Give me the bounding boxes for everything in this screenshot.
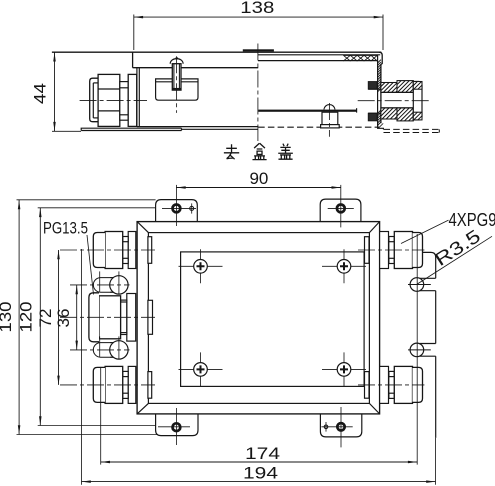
svg-text:138: 138 (240, 0, 274, 17)
cable gland PG9 right: centerline (358, 384, 424, 386)
plan view: lug hole top-left (173, 205, 181, 213)
dimension 72 (58, 250, 60, 385)
side view: right gland bore lines (368, 88, 381, 90)
side view: right wall inner edge (377, 55, 379, 127)
side view: right wall outer edge with rounded corner (379, 52, 382, 123)
side view: left gland centerline (80, 99, 147, 101)
svg-text:194: 194 (243, 464, 278, 483)
cable gland PG9 right: cap (413, 367, 423, 402)
side view: left gland internal edges (PG9 glands behind) (98, 88, 137, 90)
side view: left gland wall flange (128, 74, 137, 126)
dimension 138 (134, 16, 383, 18)
side view: lid left lip (132, 52, 134, 67)
plan view: lug top-right vertical centerline (340, 185, 342, 228)
plan view: lug bottom-left vertical centerline (175, 408, 177, 445)
side view: right gland nut (hatched) (397, 81, 413, 93)
mounting bracket outline right side (423, 252, 436, 278)
cable gland PG9 left: neck ring (123, 237, 129, 242)
cable gland PG9 left: centerline (60, 249, 155, 251)
bracket edge lower part (435, 356, 437, 438)
svg-text:PG13.5: PG13.5 (43, 220, 88, 238)
cable gland PG9 right: locknut inside box (365, 237, 370, 264)
cable gland PG9 right: body (394, 366, 412, 403)
svg-text:174: 174 (245, 444, 280, 463)
plan view: lug hole bottom-left (173, 423, 181, 431)
svg-text:120: 120 (17, 302, 36, 333)
bracket keyhole slot upper (R3.5) (420, 277, 436, 279)
side view: right gland cap (413, 82, 422, 120)
cable gland PG9 left: wall flange (128, 232, 136, 269)
plan view: box inner wall edge (148, 233, 369, 404)
side view: left gland cap (90, 78, 98, 122)
cable gland PG9 left: wall flange (128, 366, 136, 403)
side view: centerline of box (section boundary) (257, 44, 259, 142)
cable gland PG13.5: centerline (60, 316, 155, 318)
side view: right cable gland section - seal rings (dark) (368, 82, 377, 90)
side view: right screw base flange (321, 125, 340, 128)
cable gland PG9 right: centerline (358, 249, 424, 251)
plan view: lug slot top-left (190, 206, 194, 210)
svg-text:90: 90 (249, 169, 268, 188)
side view: box bottom edge left half (137, 126, 258, 128)
cable gland PG9 right: neck ring (389, 371, 394, 376)
cable gland PG9 right: neck ring (389, 237, 394, 242)
bracket keyhole slot lower (420, 343, 436, 345)
extension line for 174 right (keyhole centerline) (416, 234, 418, 465)
plan view: lug hole bottom-right (337, 423, 344, 430)
side view: left cable gland stack - body (98, 74, 120, 126)
extension line for 174 left (100, 368, 102, 465)
dimension 90 (176, 187, 340, 189)
cable gland PG9 left: locknut inside box (148, 372, 152, 399)
side view: flange plate far edge (182, 128, 258, 130)
cable gland PG13.5: cap (89, 293, 99, 342)
side view: clamp bar on lid (thick) (243, 49, 274, 51)
side view: right screw centerline (328, 103, 330, 137)
cable gland PG9 right: locknut inside box (365, 372, 370, 399)
cable gland PG13.5: locknut inside box (148, 300, 153, 334)
side view: lid bottom edge (left exterior half) (133, 67, 259, 69)
cable gland PG9 left: cap (93, 367, 105, 402)
side view: wall section hatch (378, 60, 381, 126)
side view: lug boss plate (left half interior) (156, 79, 198, 100)
side view: right gland centerline (358, 100, 431, 102)
cable gland PG9 right: wall flange (380, 366, 389, 403)
dimension 44 (54, 52, 56, 131)
side view: left screw with dome head (170, 59, 183, 64)
side view: right screw body (322, 112, 338, 124)
cable gland PG9 left: neck ring (123, 371, 129, 376)
side view: gasket cross-hatch band on lid (343, 55, 377, 61)
side view: right gland neck piece (hatched) (381, 83, 397, 93)
plan view: corner chamfer diagonals (137, 222, 148, 233)
dimension 130 (18, 200, 20, 435)
side view: left screw centerline (176, 56, 178, 113)
side view: terminal rail (thick, right half) (258, 110, 356, 112)
cable gland PG13.5: wall flange (127, 294, 136, 342)
dimension 120 (39, 208, 41, 426)
side view: left gland neck ring (120, 82, 128, 121)
svg-text:44: 44 (31, 83, 50, 104)
plan view: lid recess rectangle (181, 252, 365, 387)
cable gland PG9 right: cap (413, 233, 423, 268)
plan view: lug hole top-right (337, 205, 345, 213)
cable gland PG13.5: neck ring (121, 300, 127, 302)
side view: flange plate right side hidden (dashed) (384, 128, 440, 130)
label R3.5 with leader (418, 236, 493, 284)
cable gland PG9 left: body (105, 366, 123, 403)
cable gland PG13.5: body (99, 296, 121, 339)
bracket edge between keyholes (435, 291, 437, 344)
cable gland PG9 right: body (394, 232, 412, 269)
svg-text:130: 130 (0, 302, 15, 333)
keyhole bosses between glands (x2) (93, 278, 113, 293)
plan view: terminal screws (4x) (179, 265, 223, 267)
plan view: mounting lug outlines (behind box) (156, 200, 198, 222)
svg-text:72: 72 (36, 309, 55, 328)
dimension 194 (82, 481, 436, 483)
cable gland PG9 left: locknut inside box (148, 237, 152, 264)
cable gland PG9 left: cap (93, 233, 105, 268)
dimension 36 (76, 285, 78, 350)
side view: box left wall (136, 68, 138, 127)
side view: box bottom hidden edge right half (dashed) (258, 126, 379, 128)
cable gland PG9 right: wall flange (380, 232, 389, 269)
plan view: lug bottom-right vertical centerline (340, 407, 342, 447)
side view: right screw dome head on rail (324, 105, 335, 110)
side view: box rim under lid (right sectioned half) (258, 60, 377, 62)
plan view: lug top-left vertical centerline (175, 185, 177, 226)
svg-text:36: 36 (54, 309, 73, 328)
side view: wall foot hatch bit (378, 123, 384, 129)
side view: PG9 cap edges behind (92, 83, 94, 118)
plan view: box outer outline (137, 222, 380, 414)
plan view: lug slot bottom-right (324, 425, 328, 429)
side view: mounting flange plate (81, 128, 181, 130)
extension line for 194 left (81, 249, 83, 485)
side view: box lid top plate (52, 51, 381, 53)
dimension 174 (101, 461, 418, 463)
cable gland PG9 left: body (105, 232, 123, 269)
label: remove box lid (Chinese, drawn as strokes) (224, 144, 239, 159)
cable gland PG9 left: centerline (60, 384, 155, 386)
